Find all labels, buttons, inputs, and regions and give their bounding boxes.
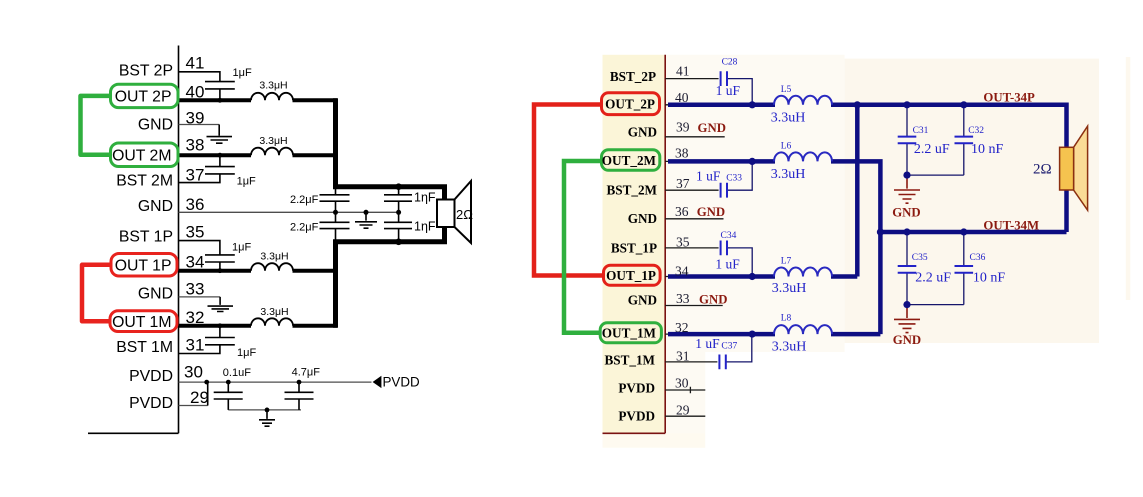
svg-text:37: 37 <box>676 176 690 191</box>
svg-text:36: 36 <box>186 195 205 214</box>
svg-text:GND: GND <box>699 292 727 306</box>
svg-text:10 nF: 10 nF <box>971 142 1004 157</box>
svg-text:29: 29 <box>190 388 209 407</box>
svg-text:OUT-34M: OUT-34M <box>983 218 1039 232</box>
svg-text:BST_1P: BST_1P <box>611 241 657 256</box>
svg-text:37: 37 <box>186 166 205 185</box>
svg-text:OUT 2P: OUT 2P <box>115 89 172 106</box>
svg-text:GND: GND <box>138 116 173 133</box>
svg-text:PVDD: PVDD <box>383 374 421 389</box>
svg-text:2.2 uF: 2.2 uF <box>915 270 951 285</box>
svg-text:OUT-34P: OUT-34P <box>983 91 1035 105</box>
svg-text:L5: L5 <box>781 85 792 95</box>
svg-text:32: 32 <box>186 308 205 327</box>
svg-text:BST_1M: BST_1M <box>604 353 655 368</box>
svg-text:1ηF: 1ηF <box>414 191 436 205</box>
svg-text:35: 35 <box>186 223 205 242</box>
svg-text:34: 34 <box>186 252 205 271</box>
svg-text:1μF: 1μF <box>232 242 251 254</box>
svg-text:2.2 uF: 2.2 uF <box>914 142 950 157</box>
svg-text:BST 1P: BST 1P <box>119 228 173 245</box>
svg-text:1 uF: 1 uF <box>696 169 721 184</box>
svg-text:PVDD: PVDD <box>618 409 655 424</box>
svg-text:38: 38 <box>186 136 205 155</box>
svg-text:30: 30 <box>675 376 689 391</box>
svg-text:33: 33 <box>186 280 205 299</box>
svg-text:30: 30 <box>184 363 203 382</box>
svg-text:3.3μH: 3.3μH <box>259 135 287 147</box>
svg-text:32: 32 <box>675 320 689 335</box>
svg-text:1 uF: 1 uF <box>695 336 720 351</box>
svg-text:1μF: 1μF <box>237 347 256 359</box>
svg-text:3.3μH: 3.3μH <box>260 306 288 318</box>
svg-text:C31: C31 <box>913 126 929 136</box>
svg-text:PVDD: PVDD <box>129 395 173 412</box>
svg-text:OUT 1P: OUT 1P <box>115 257 172 274</box>
svg-text:1 uF: 1 uF <box>715 257 740 272</box>
svg-text:GND: GND <box>138 286 173 303</box>
svg-text:34: 34 <box>675 263 689 278</box>
svg-text:36: 36 <box>675 204 689 219</box>
svg-text:3.3μH: 3.3μH <box>259 80 287 92</box>
svg-text:1ηF: 1ηF <box>414 220 436 234</box>
svg-text:GND: GND <box>628 124 657 139</box>
svg-text:L6: L6 <box>781 142 792 152</box>
svg-text:3.3uH: 3.3uH <box>772 281 807 296</box>
svg-text:L7: L7 <box>781 256 792 266</box>
svg-text:OUT_1P: OUT_1P <box>606 268 656 283</box>
svg-text:GND: GND <box>628 211 657 226</box>
svg-text:1μF: 1μF <box>233 67 252 79</box>
svg-text:C28: C28 <box>722 58 738 68</box>
svg-text:GND: GND <box>893 333 921 347</box>
svg-text:38: 38 <box>675 146 689 161</box>
svg-text:29: 29 <box>676 403 690 418</box>
svg-text:39: 39 <box>186 109 205 128</box>
svg-text:L8: L8 <box>781 313 792 323</box>
svg-text:OUT_2P: OUT_2P <box>605 97 655 112</box>
svg-text:C35: C35 <box>912 253 928 263</box>
svg-text:1μF: 1μF <box>237 176 256 188</box>
svg-text:41: 41 <box>186 54 205 73</box>
svg-text:31: 31 <box>676 349 690 364</box>
svg-text:GND: GND <box>628 292 657 307</box>
svg-text:PVDD: PVDD <box>129 368 173 385</box>
svg-text:41: 41 <box>676 64 690 79</box>
svg-text:10 nF: 10 nF <box>973 270 1006 285</box>
svg-text:GND: GND <box>697 205 725 219</box>
svg-text:PVDD: PVDD <box>618 381 655 396</box>
svg-text:3.3uH: 3.3uH <box>771 110 806 125</box>
svg-text:40: 40 <box>675 90 689 105</box>
svg-text:1 uF: 1 uF <box>716 83 741 98</box>
svg-text:3.3uH: 3.3uH <box>772 340 807 355</box>
svg-text:4.7μF: 4.7μF <box>292 367 321 379</box>
svg-text:BST 2M: BST 2M <box>116 173 173 190</box>
svg-text:3.3uH: 3.3uH <box>771 167 806 182</box>
svg-text:BST 1M: BST 1M <box>116 339 173 356</box>
svg-text:C37: C37 <box>721 341 737 351</box>
svg-text:40: 40 <box>186 83 205 102</box>
svg-text:39: 39 <box>676 119 690 134</box>
svg-text:C33: C33 <box>726 173 742 183</box>
svg-text:OUT 1M: OUT 1M <box>112 314 171 331</box>
svg-text:OUT 2M: OUT 2M <box>112 147 171 164</box>
svg-text:2Ω: 2Ω <box>1033 162 1052 178</box>
svg-text:2Ω: 2Ω <box>456 207 473 222</box>
svg-text:C32: C32 <box>968 126 984 136</box>
svg-text:BST_2M: BST_2M <box>606 183 657 198</box>
svg-text:BST 2P: BST 2P <box>119 62 173 79</box>
svg-text:0.1uF: 0.1uF <box>223 367 251 379</box>
svg-text:2.2μF: 2.2μF <box>290 194 319 206</box>
svg-text:C36: C36 <box>970 253 986 263</box>
svg-text:31: 31 <box>186 336 205 355</box>
svg-text:GND: GND <box>892 206 920 220</box>
svg-text:35: 35 <box>676 234 690 249</box>
svg-text:33: 33 <box>676 291 690 306</box>
svg-text:GND: GND <box>138 198 173 215</box>
svg-text:GND: GND <box>698 121 726 135</box>
svg-text:3.3μH: 3.3μH <box>260 251 288 263</box>
svg-text:OUT_2M: OUT_2M <box>602 153 657 168</box>
svg-text:BST_2P: BST_2P <box>610 69 656 84</box>
svg-text:2.2μF: 2.2μF <box>290 222 319 234</box>
svg-text:C34: C34 <box>721 231 737 241</box>
svg-text:OUT_1M: OUT_1M <box>602 326 657 341</box>
